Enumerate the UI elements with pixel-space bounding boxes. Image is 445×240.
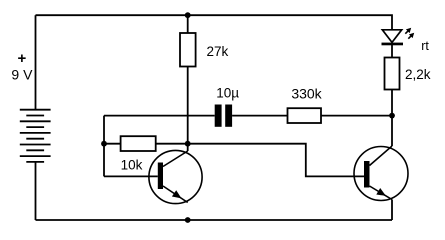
wire 330k right lead <box>321 115 392 117</box>
wire 2.2k bottom lead <box>391 90 393 116</box>
wire 27k top lead <box>187 15 189 33</box>
wire 10k right lead <box>156 143 188 145</box>
wire battery positive lead <box>35 15 37 110</box>
wire LED cathode to 2.2k <box>391 45 393 58</box>
svg-text:330k: 330k <box>291 86 322 102</box>
resistor R4 2,2k <box>385 58 400 90</box>
wire 27k to T1 collector <box>187 67 189 152</box>
svg-text:27k: 27k <box>207 44 229 59</box>
capacitor C1 10µ <box>215 105 232 127</box>
resistor R2 10k <box>121 136 156 151</box>
wire battery negative lead <box>35 162 37 220</box>
transistor Q2 <box>354 146 408 201</box>
svg-text:+: + <box>18 50 27 67</box>
node B 10k left junction <box>101 141 107 147</box>
LED D1 <box>382 30 404 46</box>
node A top junction <box>185 12 191 18</box>
wire cap left horizontal <box>104 115 215 117</box>
node E T1 emitter junction <box>185 217 191 223</box>
LED light arrow 1 <box>405 28 411 34</box>
node C T1 collector junction <box>185 141 191 147</box>
svg-text:10µ: 10µ <box>216 86 239 101</box>
battery B1 9V <box>20 110 51 162</box>
wire cap to 330k <box>232 115 287 117</box>
svg-text:rt: rt <box>421 39 429 53</box>
svg-text:9 V: 9 V <box>11 67 33 83</box>
resistor R1 27k <box>180 33 196 67</box>
wire top rail <box>36 15 393 30</box>
wire T2 emitter lead <box>391 200 393 221</box>
transistor Q1 <box>149 150 202 203</box>
node D T2 collector junction <box>389 113 395 119</box>
wire left branch vertical <box>103 116 105 177</box>
LED light arrow 2 <box>408 33 414 39</box>
wire T1 base lead <box>104 175 158 177</box>
wire 10k left lead <box>104 143 121 145</box>
wire T2 collector lead <box>391 116 393 146</box>
wire bottom rail <box>36 219 393 221</box>
svg-text:2,2k: 2,2k <box>405 67 431 82</box>
svg-text:10k: 10k <box>121 158 143 173</box>
resistor R3 330k <box>288 108 322 123</box>
wire T1 collector to T2 base <box>188 144 364 177</box>
